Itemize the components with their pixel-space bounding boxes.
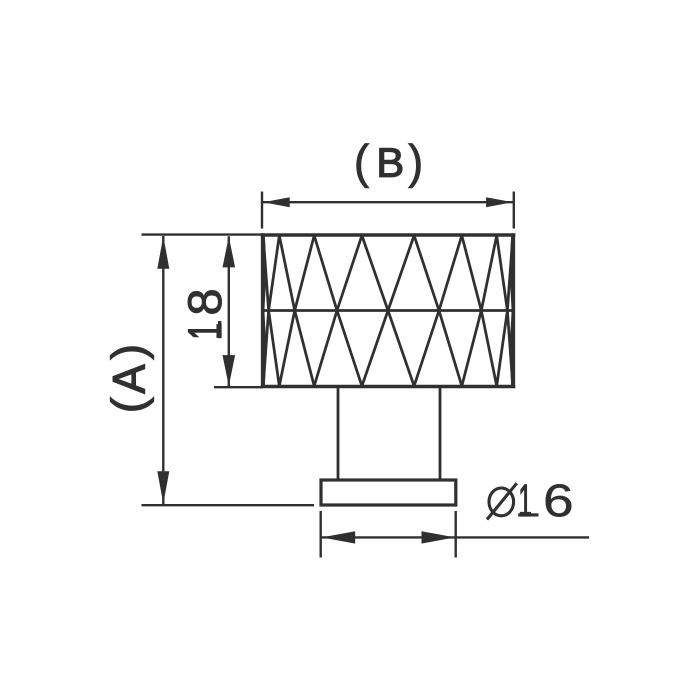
dimension Ø16: left arrowhead bbox=[322, 531, 356, 543]
dimension (B): right arrowhead bbox=[486, 197, 512, 207]
dimension (A): dimension line bbox=[162, 236, 164, 504]
dimension (A): label (rotated) bbox=[110, 397, 154, 410]
dimension (B): label bbox=[357, 143, 369, 187]
dimension (B): extension lines bbox=[262, 192, 514, 229]
dimension 18: top arrowhead bbox=[223, 236, 236, 267]
knurl silhouette edge arc left bbox=[263, 236, 264, 386]
dimension (A): top extension line bbox=[142, 233, 264, 235]
dimension 18: bottom arrowhead bbox=[223, 355, 236, 386]
knurl silhouette edge arc right bbox=[511, 236, 512, 386]
dimension (A): bottom arrowhead bbox=[157, 471, 169, 504]
dimension Ø16: diameter symbol bbox=[489, 488, 514, 516]
dimension 18: bottom extension line bbox=[214, 386, 263, 388]
dimension 18: label (rotated) bbox=[189, 325, 221, 338]
stem (neck) bbox=[338, 388, 440, 480]
dimension 18: dimension line bbox=[228, 236, 230, 386]
knob head outline (knurled cylinder, side view) bbox=[263, 235, 514, 387]
dimension Ø16: value 16 bbox=[520, 485, 530, 516]
dimension Ø16: dimension line with leader bbox=[322, 536, 590, 538]
dimension Ø16: extension lines bbox=[321, 511, 456, 558]
dimension (A): bottom extension line bbox=[142, 504, 315, 506]
knurl mid line bbox=[263, 309, 514, 312]
base flange bbox=[321, 480, 456, 505]
dimension (B): left arrowhead bbox=[263, 197, 290, 207]
knurl diamond pattern bbox=[263, 236, 513, 387]
dimension (A): top arrowhead bbox=[157, 236, 169, 269]
dimension Ø16: right arrowhead bbox=[422, 531, 456, 543]
dimension (B): dimension line bbox=[263, 201, 513, 203]
